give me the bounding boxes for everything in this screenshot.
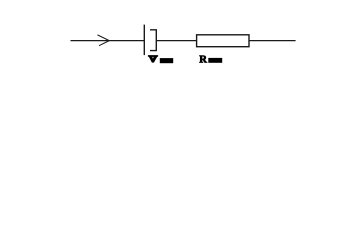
source V: long plate xyxy=(143,25,145,55)
label V xyxy=(148,55,158,63)
label R subscript blob xyxy=(208,58,222,63)
current direction arrowhead xyxy=(98,35,110,46)
label V subscript blob xyxy=(160,58,173,63)
wire: output lead xyxy=(249,40,296,42)
wire: input lead xyxy=(71,40,145,42)
resistor R: body xyxy=(197,35,249,47)
wire: source to resistor xyxy=(156,40,196,42)
svg-text:R: R xyxy=(199,54,207,65)
source V: bracket plate xyxy=(150,30,156,51)
